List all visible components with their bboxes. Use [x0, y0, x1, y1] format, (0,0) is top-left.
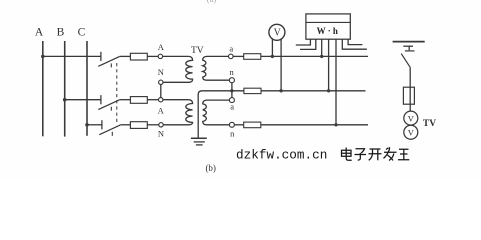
node terminal a TV2 secondary: [229, 98, 234, 103]
wire b-lead from ground stem corner: [198, 91, 244, 95]
svg-text:dzkfw.com.cn: dzkfw.com.cn: [236, 148, 327, 163]
wire row2 bus B to switch: [65, 99, 101, 101]
wire row3 fuse to terminal N: [147, 124, 159, 126]
fuse FU5 secondary b-lead: [244, 88, 261, 93]
node terminal A TV1 primary: [158, 54, 162, 58]
svg-text:V: V: [408, 127, 415, 137]
wire bus C: [86, 41, 88, 136]
transformer TV1 primary winding: [163, 56, 193, 82]
fuse FU1 primary row1: [130, 53, 147, 60]
wire row3 switch to fuse: [121, 124, 131, 126]
wire mini stem: [408, 46, 410, 50]
wire a-lead terminal to fuse: [233, 55, 244, 57]
mini single-line: busbar short bar: [403, 45, 413, 47]
svg-text:n: n: [230, 129, 235, 139]
svg-text:n: n: [229, 67, 234, 77]
node junction bus B / row 2: [63, 98, 67, 102]
switch QS4 fixed contact tick: [405, 50, 415, 52]
wire Wh current stub right outer: [342, 39, 367, 49]
wire row3 bus C to switch: [87, 124, 102, 126]
svg-text:W·h: W·h: [317, 26, 340, 36]
wire terminal A to TV2 primary: [163, 99, 189, 101]
switch QS2 blade: [98, 100, 119, 110]
wire ganged-switch dashed link: [116, 63, 118, 125]
node junction bus A / row 1: [41, 55, 45, 59]
switch QS1 fixed contact: [100, 52, 102, 61]
wire ground stem: [197, 94, 199, 138]
svg-text:TV: TV: [423, 119, 436, 129]
wire link N TV1 to A TV2: [160, 85, 162, 98]
fuse FU4 secondary a-lead: [244, 54, 261, 60]
switch QS3 blade: [99, 125, 120, 135]
wire Wh current stub left inner: [300, 39, 316, 49]
mini single-line: busbar: [393, 41, 425, 43]
transformer TV2 secondary winding: [203, 100, 230, 125]
svg-text:A: A: [158, 105, 165, 115]
node terminal a TV1 secondary: [229, 54, 234, 59]
wire terminal A to TV1 primary: [163, 55, 189, 57]
switch QS1 jaw tick: [110, 63, 112, 67]
node junction n-a link / b lead: [230, 89, 233, 92]
svg-text:C: C: [78, 27, 86, 39]
svg-text:TV: TV: [191, 46, 204, 56]
watt-hour meter PJ box: [306, 14, 350, 39]
svg-text:a: a: [230, 101, 234, 111]
wire row1 switch to fuse: [120, 55, 131, 57]
fuse FU6 secondary c-lead: [244, 122, 261, 128]
fuse FU3 primary row3: [130, 122, 147, 129]
wire bus A: [42, 41, 44, 136]
wire Wh current stub left outer: [296, 39, 311, 45]
node terminal N TV2 primary: [159, 123, 163, 127]
svg-text:(b): (b): [205, 163, 216, 173]
node junction bus C / row 3: [85, 123, 89, 127]
ground: [191, 137, 207, 139]
node junction drop2 / b-lead: [327, 89, 330, 92]
switch QS2 fixed contact: [100, 95, 102, 104]
glyph fa: [384, 147, 397, 160]
svg-text:V: V: [274, 28, 282, 39]
wire Wh voltage drop 1: [321, 39, 323, 56]
transformer TV mini circle 2: [404, 125, 418, 139]
svg-text:N: N: [158, 67, 164, 77]
wire Wh voltage drop 3: [335, 39, 337, 125]
fuse FU7 mini: [403, 87, 414, 104]
svg-text:(a): (a): [207, 0, 217, 4]
switch QS2 jaw tick: [110, 107, 112, 111]
glyph kai: [369, 149, 382, 160]
wire c-lead terminal to fuse: [234, 124, 243, 126]
wire row2 switch to fuse: [120, 99, 131, 101]
node terminal N TV1 primary: [159, 80, 163, 84]
svg-text:B: B: [57, 27, 65, 39]
switch QS4 blade: [401, 54, 410, 68]
wire row2 fuse to terminal A: [147, 99, 158, 101]
transformer TV2 primary winding: [163, 100, 192, 125]
voltmeter PV: [269, 24, 285, 40]
wire c-lead to instruments: [261, 124, 368, 126]
switch QS3 fixed contact: [101, 120, 103, 129]
watt-hour meter inner line: [306, 21, 350, 23]
wire a-lead to instruments: [261, 55, 368, 57]
node junction drop1 / a-lead: [320, 55, 323, 58]
svg-text:A: A: [35, 27, 44, 39]
svg-text:a: a: [229, 43, 233, 53]
glyph wang: [398, 149, 409, 160]
wire b-lead to instruments: [261, 90, 366, 92]
node terminal A TV2 primary: [159, 98, 163, 102]
wire link n TV1 to a TV2: [231, 83, 233, 98]
svg-text:V: V: [408, 113, 415, 123]
transformer TV mini circle 1: [404, 111, 418, 125]
glyph dian: [342, 148, 352, 161]
wire Wh voltage drop 2: [328, 39, 330, 91]
svg-text:A: A: [158, 42, 165, 52]
wire row1 fuse to terminal A: [147, 55, 158, 57]
node junction voltmeter left / a-lead: [271, 55, 274, 58]
transformer TV1 secondary winding: [203, 56, 230, 80]
fuse FU2 primary row2: [130, 97, 147, 104]
switch QS3 jaw tick: [111, 132, 113, 136]
glyph zi: [355, 149, 367, 160]
node terminal n TV2 secondary: [229, 122, 234, 127]
node junction voltmeter right / b-lead: [279, 89, 282, 92]
svg-text:N: N: [158, 129, 164, 139]
wire mini switch to fuse: [409, 68, 411, 112]
node terminal n TV1 secondary: [229, 78, 234, 83]
wire voltmeter right lead: [280, 39, 282, 91]
label watermark 电子开发王 glyphs: [342, 147, 410, 160]
wire bus B: [64, 41, 66, 137]
node junction drop3 / c-lead: [334, 123, 337, 126]
wire voltmeter left lead: [271, 39, 273, 56]
wire Wh current stub right inner: [348, 39, 362, 44]
switch QS1 blade: [98, 56, 119, 66]
wire row1 bus A to switch: [43, 55, 101, 57]
